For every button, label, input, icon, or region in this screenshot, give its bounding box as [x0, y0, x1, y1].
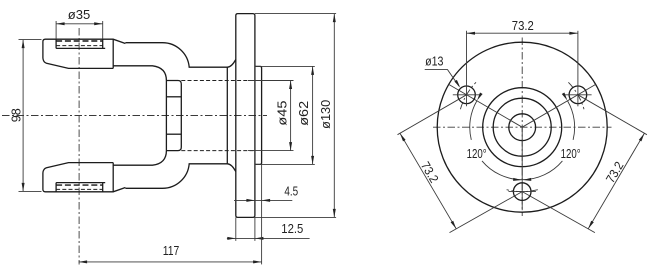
svg-text:120°: 120°	[561, 147, 581, 161]
svg-text:ø35: ø35	[68, 8, 91, 22]
svg-text:98: 98	[9, 108, 23, 122]
svg-text:4.5: 4.5	[284, 185, 298, 199]
svg-text:73.2: 73.2	[512, 19, 534, 33]
svg-text:120°: 120°	[467, 147, 487, 161]
svg-text:117: 117	[163, 244, 180, 258]
svg-text:ø130: ø130	[319, 100, 333, 129]
svg-text:ø13: ø13	[425, 55, 443, 69]
svg-text:12.5: 12.5	[281, 222, 303, 236]
svg-text:ø45: ø45	[275, 101, 289, 126]
svg-text:ø62: ø62	[297, 101, 311, 126]
